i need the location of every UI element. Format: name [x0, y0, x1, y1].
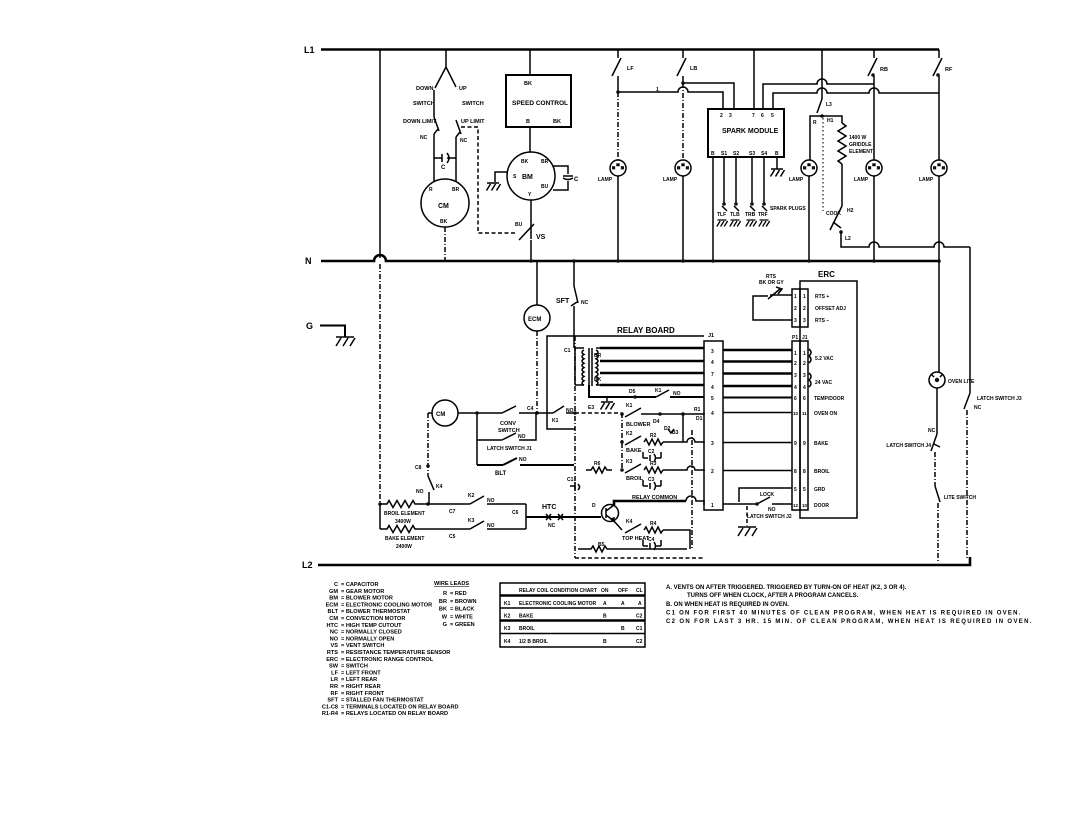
- svg-text:C1 ON FOR FIRST 40 MINUTES OF: C1 ON FOR FIRST 40 MINUTES OF CLEAN PROG…: [666, 611, 1022, 617]
- capacitor C4 relay board: [643, 537, 661, 550]
- svg-text:RELAY COIL CONDITION CHART: RELAY COIL CONDITION CHART: [519, 588, 597, 594]
- svg-text:ELEMENT: ELEMENT: [849, 149, 873, 155]
- svg-text:R4: R4: [650, 521, 657, 527]
- wire CM right lead: [458, 412, 502, 414]
- wire J1-1 to latch switch J2: [723, 503, 757, 505]
- wire latch J1 branch down: [476, 413, 478, 440]
- svg-text:R1-R4: R1-R4: [322, 711, 339, 717]
- svg-text:B: B: [603, 614, 607, 620]
- wire top heat row to right bus: [663, 530, 690, 549]
- wire spark module pin 5 to RF switch: [773, 88, 939, 109]
- svg-text:LITE SWITCH: LITE SWITCH: [944, 495, 976, 501]
- wire LF lamp to N: [617, 176, 619, 261]
- wire spark plug S3 TRB: [745, 157, 757, 227]
- junction broil element node: [426, 502, 430, 506]
- svg-text:DOWN LIMIT: DOWN LIMIT: [403, 119, 437, 125]
- wire CM left lead: [428, 412, 432, 414]
- switch LITE SWITCH: [935, 486, 976, 502]
- wire K4 aux to broil row: [428, 492, 430, 504]
- switch LATCH SWITCH J3 NC: [964, 393, 1022, 411]
- svg-text:B: B: [526, 119, 530, 125]
- svg-text:C6: C6: [512, 510, 519, 516]
- svg-text:R6: R6: [594, 461, 601, 467]
- svg-text:BLT: BLT: [495, 471, 507, 477]
- svg-text:HTC: HTC: [327, 623, 339, 629]
- svg-text:S4: S4: [761, 151, 767, 157]
- switch LOCK latch J2: [747, 492, 792, 520]
- svg-text:3400W: 3400W: [395, 519, 411, 525]
- wire blower row dashed from board edge: [575, 412, 622, 414]
- svg-text:C3: C3: [648, 477, 655, 483]
- svg-text:R: R: [443, 591, 447, 597]
- svg-text:K4: K4: [436, 484, 443, 490]
- svg-text:= RIGHT REAR: = RIGHT REAR: [341, 684, 381, 690]
- wire LF switch to spark module pin 2: [618, 76, 723, 109]
- svg-text:= TERMINALS LOCATED ON RELAY: = TERMINALS LOCATED ON RELAY BOARD: [341, 704, 459, 710]
- wire spark plug S1 TLF: [717, 157, 728, 227]
- svg-text:BR: BR: [541, 159, 549, 165]
- relay coil R6 broil aux: [586, 461, 612, 473]
- svg-text:BM: BM: [522, 174, 533, 181]
- wire interior bus dash-dot x=622: [621, 413, 623, 470]
- svg-text:8: 8: [794, 469, 797, 475]
- switch LB surface burner: [677, 50, 697, 77]
- svg-text:C: C: [574, 177, 579, 183]
- junction LF lamp tap: [616, 90, 620, 94]
- svg-text:B: B: [775, 151, 779, 157]
- svg-text:1: 1: [803, 294, 806, 300]
- svg-text:R1: R1: [694, 407, 701, 413]
- svg-text:N: N: [305, 256, 312, 266]
- svg-text:RELAY BOARD: RELAY BOARD: [617, 326, 675, 335]
- svg-text:GRD: GRD: [814, 487, 826, 493]
- svg-text:= SWITCH: = SWITCH: [341, 664, 368, 670]
- svg-text:CM: CM: [438, 203, 449, 210]
- svg-text:= BLOWER THERMOSTAT: = BLOWER THERMOSTAT: [341, 609, 411, 615]
- svg-text:4: 4: [711, 360, 714, 366]
- ground BM: [487, 183, 501, 191]
- svg-text:1: 1: [794, 294, 797, 300]
- switch LATCH SWITCH J4 NC: [886, 428, 940, 451]
- switch L3 griddle: [817, 99, 832, 113]
- svg-text:= STALLED FAN THERMOSTAT: = STALLED FAN THERMOSTAT: [341, 698, 424, 704]
- connector RTS 3-pin: [792, 289, 808, 327]
- capacitor C2 relay board: [643, 449, 661, 462]
- svg-text:C2: C2: [636, 639, 643, 645]
- wire RF lamp to N: [938, 176, 940, 261]
- relay coil R3: [644, 461, 663, 473]
- svg-text:3: 3: [794, 373, 797, 379]
- svg-text:BROIL ELEMENT: BROIL ELEMENT: [384, 511, 425, 517]
- svg-text:Y: Y: [528, 192, 532, 198]
- relay board outline: [547, 326, 704, 558]
- svg-text:BAKE ELEMENT: BAKE ELEMENT: [385, 536, 424, 542]
- capacitor C3 relay board: [643, 477, 661, 490]
- svg-text:= WHITE: = WHITE: [450, 614, 473, 620]
- svg-text:K1: K1: [552, 418, 559, 424]
- motor BM blower motor: [507, 152, 555, 200]
- svg-text:K2: K2: [468, 493, 475, 499]
- svg-text:D5: D5: [629, 389, 636, 395]
- relay contact K1 NO (cooling): [655, 388, 681, 397]
- svg-text:D1: D1: [696, 416, 703, 422]
- spark module U1: [708, 109, 784, 157]
- svg-text:= HIGH TEMP CUTOUT: = HIGH TEMP CUTOUT: [341, 623, 402, 629]
- resistor bake element 2400W: [380, 526, 470, 551]
- svg-text:CM: CM: [329, 616, 338, 622]
- svg-text:SFT: SFT: [556, 298, 570, 305]
- svg-text:RELAY COMMON: RELAY COMMON: [632, 495, 677, 501]
- switch LATCH SWITCH J1 NO: [477, 413, 536, 452]
- svg-text:RB: RB: [880, 67, 888, 73]
- wire LB lamp line: [682, 83, 684, 160]
- svg-text:LOCK: LOCK: [760, 492, 775, 498]
- svg-text:K1: K1: [626, 403, 633, 409]
- motor CM gear motor: [421, 179, 469, 227]
- wire J1-5 to P1-6: [723, 397, 792, 399]
- wire RB switch to lamp: [873, 76, 875, 160]
- capacitor C (blower motor): [553, 166, 579, 190]
- svg-text:5: 5: [771, 113, 774, 119]
- wire blower to bake row link: [682, 414, 684, 442]
- svg-text:BLOWER: BLOWER: [626, 422, 650, 428]
- wire blower row to J1-4: [641, 413, 704, 414]
- svg-text:NO: NO: [519, 457, 527, 463]
- wire J1-7 to P1-3: [723, 372, 792, 375]
- svg-text:RF: RF: [945, 67, 953, 73]
- svg-text:SPARK MODULE: SPARK MODULE: [722, 128, 779, 135]
- svg-text:K2: K2: [626, 431, 633, 437]
- relay contact K2: [625, 431, 642, 454]
- svg-text:VS: VS: [331, 643, 339, 649]
- wire BLT branch down: [476, 440, 478, 465]
- svg-text:S: S: [513, 174, 517, 180]
- svg-text:LATCH SWITCH J3: LATCH SWITCH J3: [977, 396, 1022, 402]
- transistor Q1 driver: [592, 503, 619, 522]
- svg-text:NO: NO: [487, 498, 495, 504]
- junction dots on N: [529, 259, 533, 263]
- wire J1-4b to P1-4: [723, 385, 792, 388]
- svg-text:BAKE: BAKE: [814, 441, 829, 447]
- svg-text:NC: NC: [548, 523, 556, 529]
- wire transformer tap to J1-4: [600, 360, 704, 363]
- wire DOWN branch to capacitor: [433, 134, 435, 182]
- labels R1 D1: [694, 407, 703, 422]
- wire J1-2 to P1-8: [723, 470, 792, 472]
- svg-text:3: 3: [803, 318, 806, 324]
- wire oven lite rail from N: [938, 261, 940, 372]
- svg-text:3: 3: [803, 373, 806, 379]
- wire top heat row from transistor: [613, 520, 622, 530]
- svg-text:= CONVECTION MOTOR: = CONVECTION MOTOR: [341, 616, 405, 622]
- switch CONV: [498, 406, 520, 434]
- svg-text:10: 10: [793, 411, 799, 416]
- svg-text:A: A: [638, 601, 642, 607]
- relay contact K3 bake element: [468, 518, 526, 529]
- svg-text:C: C: [441, 165, 446, 171]
- svg-text:BK: BK: [594, 377, 602, 383]
- motor ECM electronic cooling motor: [524, 261, 550, 331]
- svg-text:K3: K3: [504, 626, 511, 632]
- wire to latch switch J4: [936, 388, 938, 434]
- svg-text:9: 9: [803, 441, 806, 447]
- connector P1 J1 main ERC: [792, 335, 808, 510]
- ERC electronic range control box: [800, 270, 857, 518]
- svg-text:ECM: ECM: [326, 602, 339, 608]
- svg-text:OFF: OFF: [618, 588, 628, 594]
- svg-text:C4: C4: [527, 406, 534, 412]
- svg-text:J1: J1: [708, 333, 714, 339]
- svg-text:SWITCH: SWITCH: [498, 428, 520, 434]
- svg-text:GM: GM: [329, 589, 338, 595]
- svg-text:NC: NC: [420, 135, 428, 141]
- svg-text:= NORMALLY OPEN: = NORMALLY OPEN: [341, 636, 394, 642]
- svg-text:3: 3: [794, 318, 797, 324]
- wire spark plug S4 TRF: [758, 157, 770, 227]
- svg-text:SW: SW: [329, 664, 339, 670]
- svg-text:4: 4: [803, 385, 806, 391]
- wire relay common row: [614, 501, 686, 505]
- svg-text:RTS −: RTS −: [815, 318, 829, 324]
- wire speed control to BM: [529, 127, 531, 152]
- svg-text:1: 1: [794, 351, 797, 357]
- svg-text:6: 6: [761, 113, 764, 119]
- junction blower row: [620, 412, 624, 416]
- wire transformer tap to J1-7: [600, 372, 704, 375]
- svg-text:BK: BK: [524, 81, 532, 87]
- svg-text:RF: RF: [331, 691, 339, 697]
- svg-text:SWITCH: SWITCH: [413, 101, 435, 107]
- wire latch J3 to L2 dash-dot: [966, 410, 968, 560]
- svg-text:BK: BK: [440, 219, 448, 225]
- label B3 net: [668, 429, 679, 436]
- svg-text:TLF: TLF: [717, 212, 726, 218]
- svg-text:K3: K3: [626, 459, 633, 465]
- svg-text:6: 6: [794, 396, 797, 402]
- svg-text:7: 7: [711, 372, 714, 378]
- svg-text:4: 4: [794, 385, 797, 391]
- switch DOWN (oven door motor): [413, 50, 446, 108]
- svg-text:ERC: ERC: [818, 270, 835, 279]
- table relay coil condition chart: [500, 583, 645, 647]
- svg-text:NO: NO: [416, 489, 424, 495]
- svg-text:9: 9: [794, 441, 797, 447]
- svg-text:NO: NO: [487, 523, 495, 529]
- wire griddle feed from L1: [821, 50, 823, 100]
- legend wire leads: [434, 581, 477, 628]
- svg-text:BLT: BLT: [328, 609, 339, 615]
- wire DOWN branch: [433, 90, 435, 117]
- svg-text:NC: NC: [581, 300, 589, 306]
- svg-text:6: 6: [803, 396, 806, 402]
- wire SFT to relay board transformer: [573, 306, 575, 348]
- sensor RTS thermistor: [759, 274, 784, 299]
- wire transformer secondary to J1-3: [600, 347, 704, 350]
- wire RF switch to lamp: [938, 76, 940, 160]
- svg-text:LAMP: LAMP: [789, 177, 804, 183]
- ground spark module pin B right: [771, 157, 785, 177]
- svg-text:12: 12: [793, 503, 799, 508]
- wire J1-4 to P1-2: [723, 360, 792, 363]
- junction L2 griddle: [839, 230, 851, 242]
- svg-text:CM: CM: [436, 412, 445, 418]
- wire left rail x=380 from L1 to N: [379, 50, 381, 259]
- svg-text:LATCH SWITCH J2: LATCH SWITCH J2: [747, 514, 792, 520]
- svg-text:LF: LF: [331, 670, 338, 676]
- wire element to cook switch: [841, 164, 843, 206]
- svg-text:LAMP: LAMP: [854, 177, 869, 183]
- svg-text:G: G: [306, 321, 313, 331]
- svg-text:5: 5: [794, 487, 797, 493]
- wire J1-3b to P1-9: [723, 442, 792, 444]
- svg-text:G: G: [443, 622, 447, 628]
- svg-text:C1: C1: [564, 348, 571, 354]
- switch UP: [446, 67, 484, 107]
- svg-text:C1: C1: [636, 626, 643, 632]
- svg-text:R: R: [429, 187, 433, 193]
- svg-text:TRB: TRB: [745, 212, 756, 218]
- svg-text:3: 3: [711, 441, 714, 447]
- svg-text:UP LIMIT: UP LIMIT: [461, 119, 485, 125]
- svg-text:LAMP: LAMP: [919, 177, 934, 183]
- svg-text:C2 ON FOR LAST 3 HR. 15 MIN. O: C2 ON FOR LAST 3 HR. 15 MIN. OF CLEAN PR…: [666, 619, 1033, 625]
- svg-text:BROIL: BROIL: [626, 476, 644, 482]
- wire ECM to relay board (dash-dot): [536, 331, 538, 413]
- svg-text:SWITCH: SWITCH: [462, 101, 484, 107]
- svg-text:A. VENTS ON AFTER TRIGGERED. T: A. VENTS ON AFTER TRIGGERED. TRIGGERED B…: [666, 585, 907, 591]
- svg-text:1: 1: [803, 351, 806, 357]
- wire spark module pin B to N: [712, 157, 714, 261]
- svg-text:NO: NO: [768, 507, 776, 513]
- relay contact K4: [622, 519, 650, 542]
- svg-text:A: A: [603, 601, 607, 607]
- wire left element join: [379, 504, 381, 529]
- svg-text:8: 8: [803, 469, 806, 475]
- svg-text:2: 2: [720, 113, 723, 119]
- svg-text:S2: S2: [733, 151, 739, 157]
- svg-text:C8: C8: [415, 465, 422, 471]
- svg-text:2: 2: [794, 306, 797, 312]
- wire LB switch to spark module pin 3: [683, 76, 734, 109]
- svg-text:WIRE LEADS: WIRE LEADS: [434, 581, 469, 587]
- wire RB lamp to N: [873, 176, 875, 261]
- svg-text:BAKE: BAKE: [626, 448, 642, 454]
- wire VS to N: [530, 240, 532, 261]
- svg-text:3: 3: [729, 113, 732, 119]
- svg-text:L2: L2: [845, 236, 851, 242]
- junction blower-bake link: [653, 412, 685, 432]
- switch LF surface burner: [612, 50, 634, 77]
- svg-text:ELECTRONIC COOLING MOTOR: ELECTRONIC COOLING MOTOR: [519, 601, 597, 607]
- svg-text:OVEN ON: OVEN ON: [814, 411, 837, 417]
- svg-text:7: 7: [752, 113, 755, 119]
- svg-text:2: 2: [803, 361, 806, 367]
- junction D5: [629, 389, 637, 399]
- relay coil R2: [644, 433, 663, 445]
- svg-text:H2: H2: [847, 208, 854, 214]
- wire UP branch to motor: [455, 137, 457, 182]
- svg-text:L3: L3: [826, 102, 832, 108]
- svg-text:5: 5: [803, 487, 806, 493]
- svg-text:BR: BR: [594, 353, 602, 359]
- wire element rows join: [525, 504, 527, 529]
- junction C4 terminal: [519, 406, 553, 415]
- switch UP LIMIT NC: [456, 119, 485, 144]
- svg-text:= LEFT FRONT: = LEFT FRONT: [341, 670, 381, 676]
- relay coil R5 bottom: [578, 542, 687, 552]
- notes block: [666, 585, 1033, 625]
- label C8 terminal: [415, 464, 430, 471]
- svg-text:1: 1: [711, 503, 714, 509]
- wire CM dash lead down to K4 aux: [427, 413, 429, 476]
- ground relay board: [588, 397, 615, 411]
- switch RB surface burner: [868, 50, 888, 77]
- svg-text:NC: NC: [974, 405, 982, 411]
- wire left rail x=380 below N (dash-dot) to broil element: [379, 264, 381, 502]
- svg-text:SPEED CONTROL: SPEED CONTROL: [512, 100, 568, 107]
- relay coil R4: [644, 521, 663, 533]
- svg-text:R: R: [813, 120, 817, 126]
- svg-text:BU: BU: [515, 222, 523, 228]
- wire RTS to connector pins 1 and 3: [753, 295, 792, 320]
- wire K1 row to J1-5: [589, 385, 704, 397]
- svg-text:RTS +: RTS +: [815, 294, 829, 300]
- wire J1-4c to P1-10: [723, 412, 792, 414]
- svg-text:K1: K1: [504, 601, 511, 607]
- svg-text:24 VAC: 24 VAC: [815, 380, 833, 386]
- relay contact K1 conv NO: [552, 406, 577, 424]
- resistor 1400W griddle element: [838, 123, 873, 164]
- svg-text:= ELECTRONIC RANGE CONTROL: = ELECTRONIC RANGE CONTROL: [341, 657, 434, 663]
- svg-text:TRF: TRF: [758, 212, 768, 218]
- wire LF lamp line: [617, 92, 619, 160]
- svg-text:11: 11: [802, 411, 807, 416]
- svg-text:C1: C1: [567, 477, 574, 483]
- speed control module: [506, 75, 571, 127]
- label 5.2 VAC with bracket: [809, 349, 834, 363]
- svg-text:CL: CL: [636, 588, 643, 594]
- wire GRD lead: [739, 488, 792, 502]
- junction bake row: [620, 440, 624, 444]
- svg-text:OFFSET ADJ: OFFSET ADJ: [815, 306, 846, 312]
- relay contact K3: [625, 459, 644, 482]
- svg-text:LAMP: LAMP: [598, 177, 613, 183]
- lamp oven R: [789, 160, 817, 183]
- svg-text:NC: NC: [928, 428, 936, 434]
- svg-text:= RELAYS LOCATED ON RELAY BOA: = RELAYS LOCATED ON RELAY BOARD: [341, 711, 448, 717]
- svg-text:VS: VS: [536, 234, 546, 241]
- wire lite switch to L2 dash-dot: [937, 503, 939, 563]
- junction LB lamp tap: [681, 81, 685, 85]
- svg-text:R3: R3: [650, 461, 657, 467]
- svg-text:ECM: ECM: [528, 317, 541, 323]
- wire LB lamp to N: [682, 176, 684, 261]
- wire J1-3 to P1-1: [723, 349, 792, 352]
- wire spark module pin 6 to RB switch: [763, 79, 874, 109]
- svg-text:NO: NO: [673, 391, 681, 397]
- svg-text:LB: LB: [690, 66, 697, 72]
- ground latch J2: [738, 527, 757, 536]
- svg-text:TOP HEAT: TOP HEAT: [622, 536, 650, 542]
- wire griddle node to element: [822, 116, 842, 123]
- svg-text:1/2 B BROIL: 1/2 B BROIL: [519, 639, 548, 645]
- svg-text:NO: NO: [518, 434, 526, 440]
- svg-text:UP: UP: [459, 86, 467, 92]
- svg-text:= GREEN: = GREEN: [450, 622, 475, 628]
- svg-text:5: 5: [711, 396, 714, 402]
- junction broil row: [620, 468, 624, 472]
- svg-text:LATCH SWITCH J4: LATCH SWITCH J4: [886, 443, 931, 449]
